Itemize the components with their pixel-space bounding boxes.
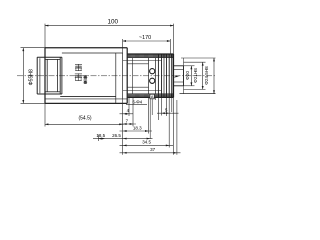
dimension 18.5 and 26.5 (93, 138, 153, 140)
main body outline (45, 47, 127, 49)
front hood ring (36, 57, 38, 94)
dimension (54.5) (45, 123, 124, 125)
dimension 37 (120, 152, 181, 154)
screw hole upper (150, 69, 155, 74)
svg-text:34.5: 34.5 (142, 140, 151, 145)
svg-text:100: 100 (108, 18, 119, 25)
dimension ~170 (123, 40, 171, 42)
screw hole column (148, 58, 150, 94)
screw hole lower (150, 78, 155, 83)
dimension 34.5 (120, 144, 174, 146)
body inner bore lines (62, 52, 123, 54)
svg-text:Φ21H8: Φ21H8 (193, 68, 198, 83)
svg-text:(54.5): (54.5) (78, 116, 91, 122)
dimension phi21H8 (202, 62, 204, 89)
svg-text:Φ20: Φ20 (185, 71, 190, 80)
dimension 100 top (45, 25, 174, 27)
centerline (17, 75, 215, 77)
nozzle (174, 65, 184, 67)
dimension 5 (157, 112, 179, 114)
dimension phi24.5H8 (213, 58, 215, 94)
right dim block extension lines (183, 58, 185, 94)
centerline leader arrow (174, 75, 177, 77)
bore step verticals (115, 53, 117, 103)
tube inner lines (123, 60, 162, 62)
thread relief step (132, 58, 134, 94)
dimension 4 (120, 113, 134, 115)
flange plates (157, 54, 159, 97)
thread hatch bottom band (127, 94, 173, 97)
glass element (46, 59, 48, 91)
svg-text:6-Φ4: 6-Φ4 (132, 99, 142, 104)
svg-text:Φ55H8: Φ55H8 (28, 69, 34, 85)
svg-text:Φ24.5H8: Φ24.5H8 (204, 66, 209, 85)
svg-text:26.5: 26.5 (112, 133, 121, 138)
svg-text:~170: ~170 (139, 35, 151, 41)
svg-text:37: 37 (150, 147, 156, 152)
svg-text:18.3: 18.3 (133, 126, 142, 131)
flange face (173, 54, 175, 97)
dimension 18.3 (120, 130, 153, 132)
extension lines below part (44, 103, 46, 126)
svg-text:18.5: 18.5 (96, 133, 105, 138)
dimension phi55H8 left (21, 47, 46, 49)
dimension phi20 (190, 66, 192, 86)
datum A flag (150, 94, 154, 99)
dimension 7 (120, 123, 137, 125)
annotation glyphs (75, 64, 82, 66)
